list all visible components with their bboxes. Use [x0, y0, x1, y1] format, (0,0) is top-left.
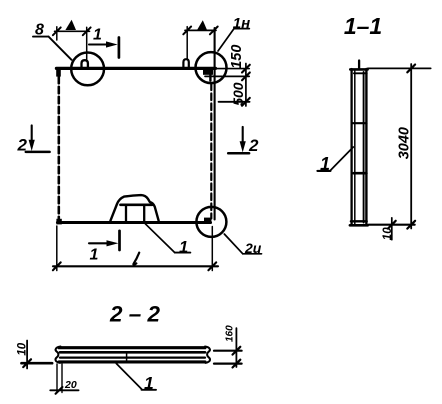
section mark 1 (bottom) arrow	[89, 242, 110, 244]
1-1 division 2	[354, 172, 367, 175]
svg-text:8: 8	[35, 21, 44, 38]
2-2 dim 10 tick	[23, 359, 31, 367]
svg-text:2: 2	[248, 136, 259, 155]
svg-text:1: 1	[90, 246, 99, 263]
dim A right: ticks	[183, 27, 191, 35]
detail circle top-right (1н)	[196, 52, 227, 83]
1-1 inner top	[354, 72, 367, 74]
svg-text:150: 150	[229, 45, 245, 69]
dim A left: ext lines	[56, 27, 58, 40]
2-2 dim 160 ext bottom	[214, 363, 242, 365]
1-1 dim top line	[368, 67, 431, 69]
2-2 dim 20 ticks	[56, 387, 63, 394]
section mark 2 (left) bar	[26, 151, 50, 154]
drain bump band	[121, 203, 153, 206]
label L	[133, 253, 139, 265]
2-2 mid joint	[126, 352, 128, 362]
2-2 right end notch	[205, 347, 210, 363]
1-1 panel inner left	[354, 71, 356, 224]
svg-text:1: 1	[179, 238, 188, 256]
section mark 1 (top) arrow	[89, 43, 110, 45]
dim 150/500: line low	[219, 101, 250, 103]
dim L: ext lines	[56, 226, 58, 271]
leader 1 (bump)	[145, 224, 175, 253]
1-1 leader 1	[317, 170, 330, 172]
2-2 left end notch	[55, 347, 60, 363]
dim 150/500: ticks	[242, 65, 250, 73]
section mark 2 (left) arrow	[31, 125, 33, 143]
svg-text:2 – 2: 2 – 2	[109, 302, 161, 327]
section mark 2 (right) bar	[228, 152, 249, 155]
svg-text:1н: 1н	[233, 15, 250, 32]
1-1 panel outer left	[350, 69, 352, 225]
section mark 2 (right) arrow	[242, 127, 244, 145]
dim A left: line	[55, 30, 90, 32]
detail circle top-left	[71, 53, 104, 86]
2-2 slab line 4	[59, 360, 205, 363]
1-1 dim 3040 vertical	[410, 64, 412, 229]
2-2 dim 20 line	[50, 389, 78, 391]
leader 1н	[218, 29, 234, 51]
2-2 dim 160 ext top	[214, 350, 242, 352]
svg-text:1: 1	[93, 26, 102, 43]
dim L: line	[53, 265, 218, 267]
svg-text:20: 20	[64, 379, 77, 391]
1-1 dim 10 tick line	[391, 218, 393, 240]
dim 150/500: vertical line	[245, 64, 247, 107]
lifting loop left	[82, 60, 88, 68]
2-2 dim 10 vertical	[26, 341, 28, 369]
panel right hidden edge (dashed)	[210, 84, 212, 219]
1-1 panel inner right	[363, 72, 365, 223]
2-2 slab line 1	[59, 346, 205, 349]
svg-text:2: 2	[17, 136, 28, 155]
1-1 division 1	[352, 122, 366, 124]
panel right edge (solid)	[214, 28, 216, 220]
dim L: ticks	[53, 262, 61, 270]
1-1 bottom outer	[350, 224, 368, 227]
dim line 150 (top, extends from top edge)	[216, 68, 250, 70]
svg-text:1–1: 1–1	[344, 13, 382, 39]
1-1 top cap	[350, 68, 367, 71]
svg-text:10: 10	[16, 342, 28, 355]
dim A right: ext line	[186, 27, 188, 59]
section mark 1 (top) bar	[118, 38, 121, 58]
svg-text:160: 160	[225, 325, 236, 342]
label A left	[65, 20, 76, 30]
2-2 dim 20 ext lines	[56, 364, 58, 393]
dim A left: ticks	[53, 27, 61, 35]
2-2 dim 160 vertical	[235, 328, 237, 367]
corner hook bottom-right	[204, 218, 211, 223]
2-2 dim 160 ticks	[233, 347, 241, 355]
panel bottom edge	[58, 221, 211, 224]
corner step top-right	[203, 69, 213, 75]
section mark 1 (bottom) bar	[118, 231, 121, 250]
corner blob top-left	[56, 68, 61, 77]
leader 2и	[224, 234, 243, 254]
label A right	[197, 20, 207, 30]
drain bump vertical 2	[143, 205, 145, 223]
panel top edge	[56, 67, 215, 70]
svg-text:2и: 2и	[244, 240, 262, 256]
leader 8	[33, 36, 49, 38]
svg-text:3040: 3040	[396, 127, 412, 159]
dim 150/500: line mid	[205, 75, 249, 77]
1-1 panel outer right	[365, 69, 367, 225]
1-1 dim bottom line	[369, 224, 415, 226]
1-1 dim ticks	[407, 65, 415, 73]
2-2 leader 1	[116, 364, 141, 390]
svg-text:1: 1	[144, 373, 154, 393]
drain bump outline	[111, 195, 159, 221]
2-2 slab line 3	[60, 357, 205, 359]
dim A right: line	[185, 29, 216, 31]
2-2 slab line 2	[60, 351, 205, 354]
panel left edge (dashed)	[57, 77, 60, 221]
lifting loop right	[183, 59, 188, 67]
2-2 dim 10 horizontal	[22, 362, 53, 365]
detail circle bottom-right (2и)	[196, 207, 226, 237]
1-1 loop stub	[358, 61, 360, 69]
svg-text:500: 500	[230, 82, 246, 106]
svg-text:10: 10	[382, 227, 394, 240]
corner blob bottom-left	[56, 219, 61, 225]
svg-text:1: 1	[320, 154, 330, 174]
1-1 bottom inner	[351, 220, 367, 222]
drain bump vertical 1	[125, 205, 127, 221]
